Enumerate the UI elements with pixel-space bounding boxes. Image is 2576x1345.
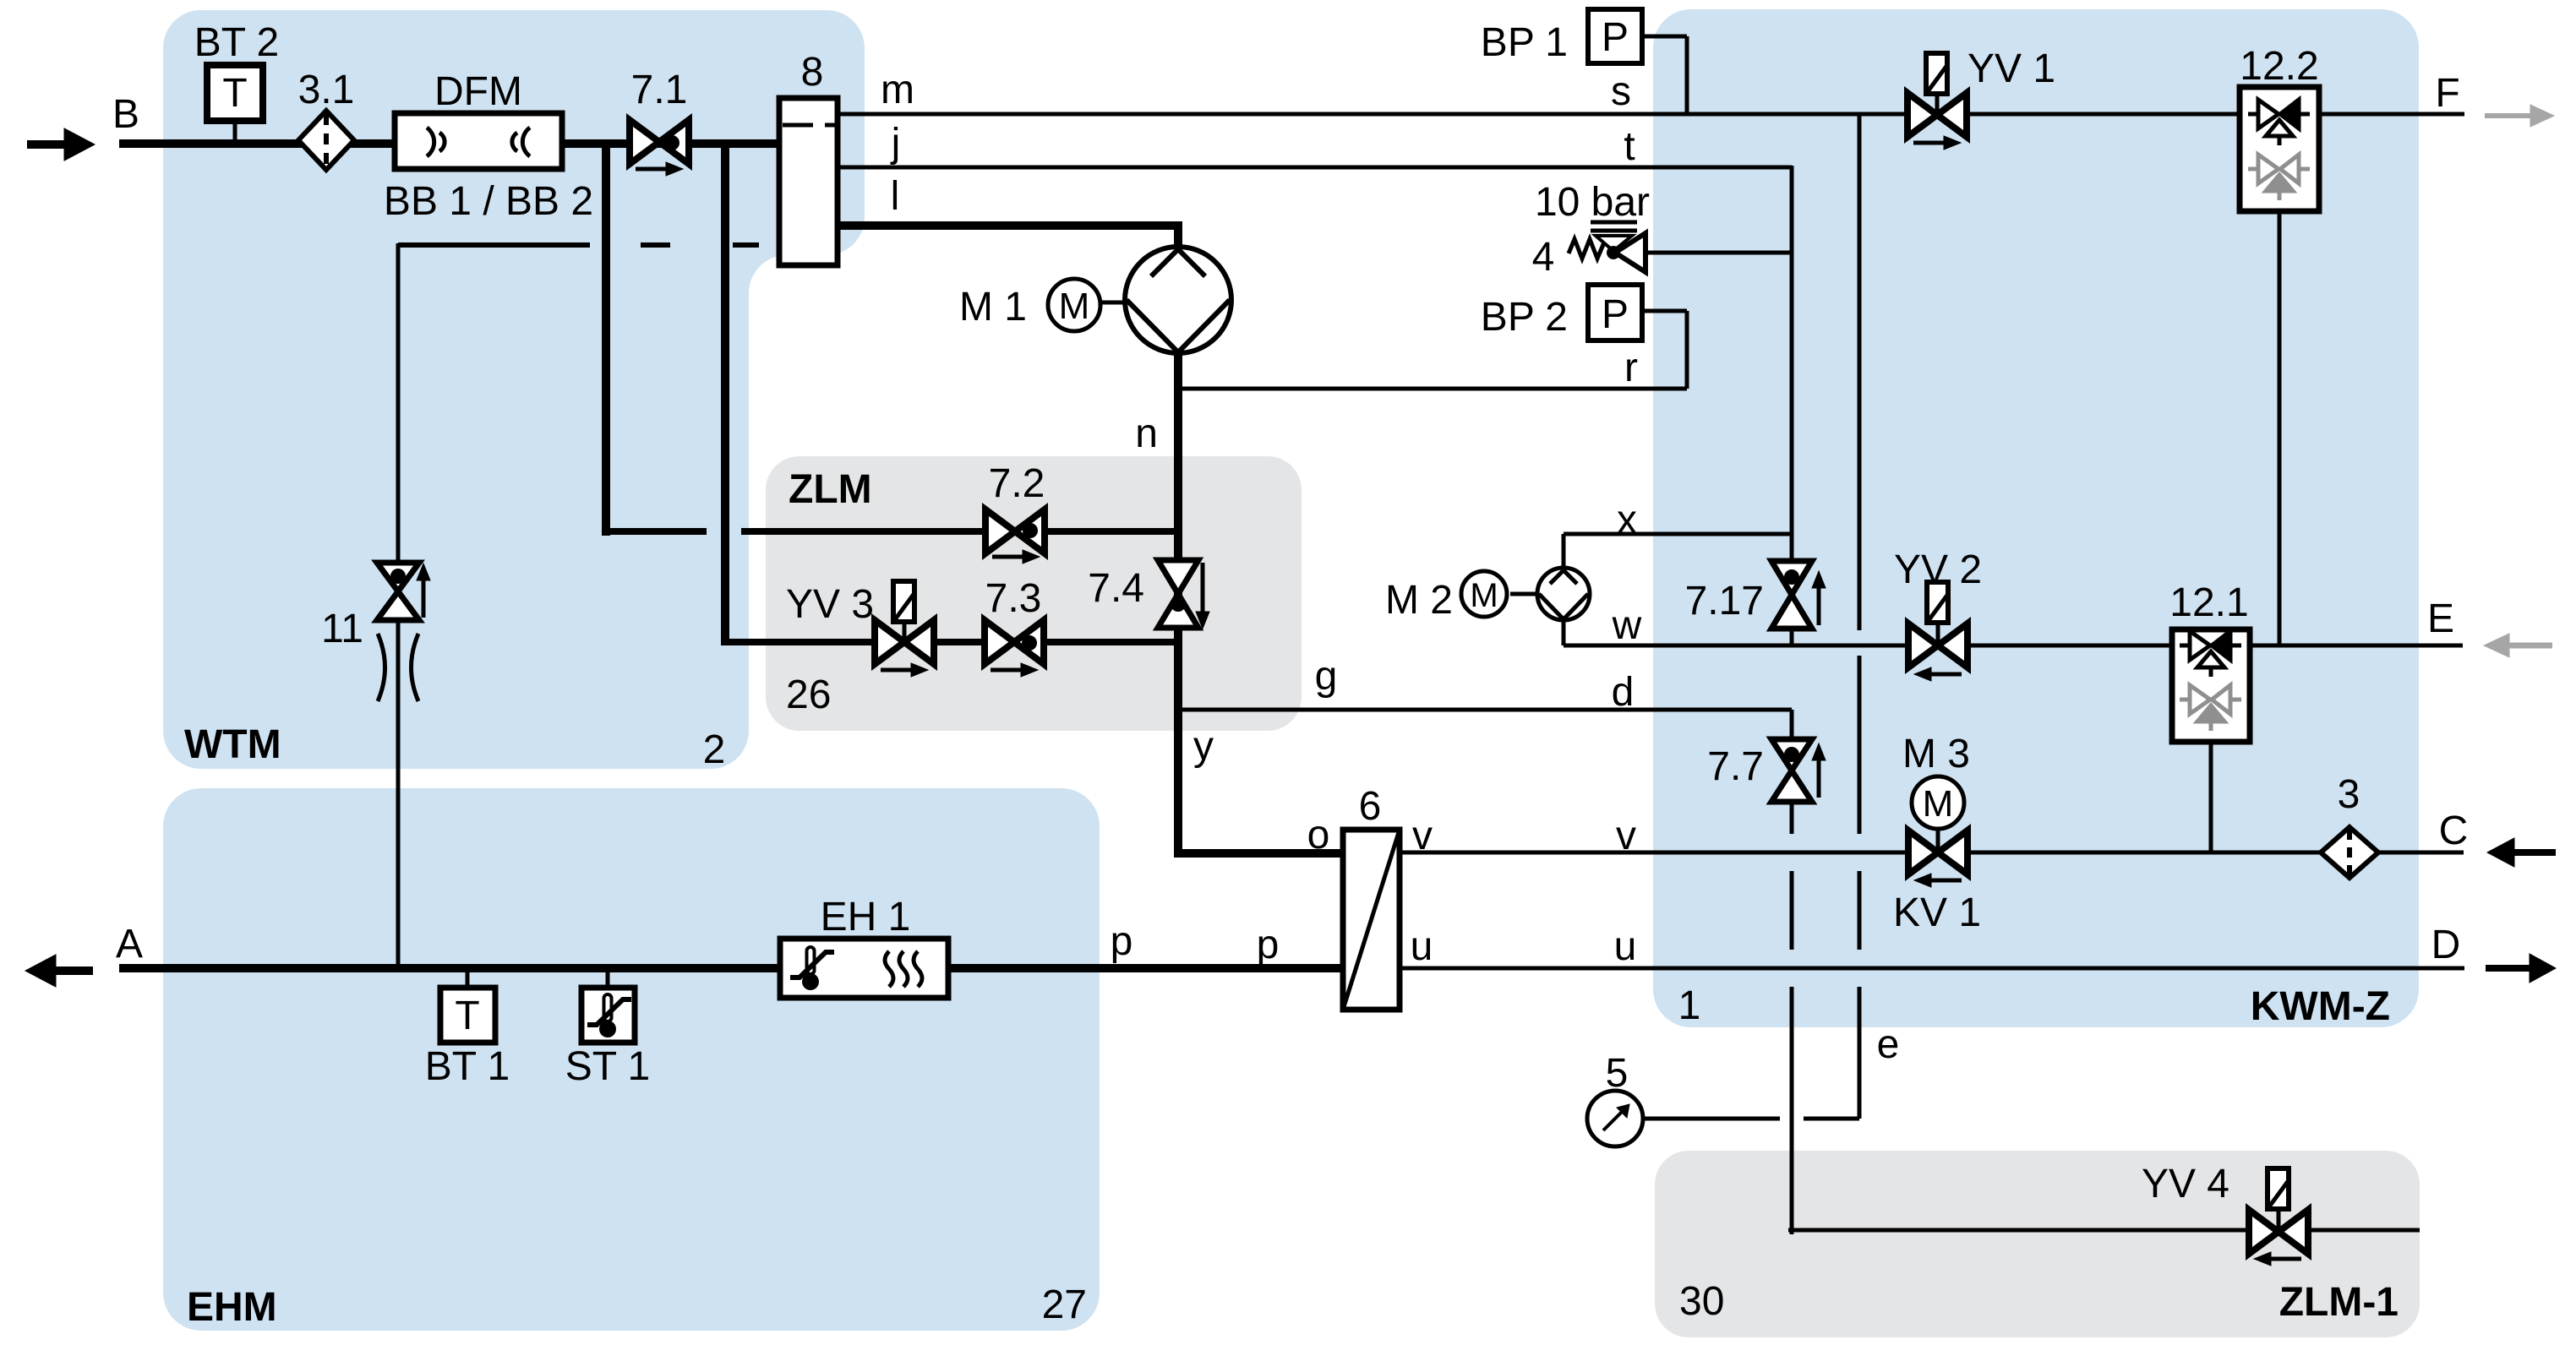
svg-text:11: 11 bbox=[321, 607, 363, 651]
svg-text:r: r bbox=[1624, 346, 1638, 390]
svg-text:BP 2: BP 2 bbox=[1481, 295, 1568, 340]
svg-text:6: 6 bbox=[1359, 784, 1382, 829]
svg-text:T: T bbox=[222, 71, 247, 116]
svg-text:p: p bbox=[1111, 919, 1133, 964]
svg-text:g: g bbox=[1315, 654, 1338, 699]
svg-text:5: 5 bbox=[1606, 1051, 1629, 1096]
svg-text:u: u bbox=[1411, 924, 1433, 969]
svg-text:7.2: 7.2 bbox=[989, 461, 1045, 506]
svg-text:EH 1: EH 1 bbox=[821, 895, 911, 939]
svg-text:4: 4 bbox=[1532, 235, 1555, 280]
svg-text:M: M bbox=[1923, 783, 1954, 825]
svg-text:30: 30 bbox=[1679, 1279, 1724, 1324]
svg-text:8: 8 bbox=[801, 50, 824, 95]
svg-text:3.1: 3.1 bbox=[298, 68, 355, 112]
svg-text:2: 2 bbox=[703, 727, 726, 772]
svg-text:ST 1: ST 1 bbox=[565, 1044, 651, 1089]
svg-text:3: 3 bbox=[2338, 772, 2360, 817]
svg-text:KV 1: KV 1 bbox=[1893, 890, 1981, 935]
svg-text:B: B bbox=[112, 92, 139, 137]
svg-text:7.3: 7.3 bbox=[985, 576, 1042, 621]
svg-text:p: p bbox=[1257, 923, 1280, 967]
svg-text:ZLM: ZLM bbox=[789, 467, 872, 512]
svg-text:BP 1: BP 1 bbox=[1481, 20, 1568, 65]
svg-text:P: P bbox=[1602, 15, 1629, 60]
svg-text:u: u bbox=[1614, 924, 1637, 969]
svg-text:7.1: 7.1 bbox=[631, 68, 688, 112]
svg-text:BT 1: BT 1 bbox=[425, 1044, 510, 1089]
svg-text:v: v bbox=[1412, 814, 1433, 858]
svg-text:e: e bbox=[1877, 1022, 1900, 1067]
svg-text:l: l bbox=[891, 174, 900, 219]
svg-text:BT 2: BT 2 bbox=[194, 20, 280, 65]
svg-text:26: 26 bbox=[786, 672, 831, 717]
svg-text:DFM: DFM bbox=[434, 69, 522, 114]
svg-text:T: T bbox=[455, 994, 479, 1038]
svg-text:x: x bbox=[1617, 498, 1637, 542]
svg-text:WTM: WTM bbox=[184, 722, 281, 767]
svg-text:o: o bbox=[1307, 813, 1330, 858]
svg-text:j: j bbox=[890, 121, 901, 166]
svg-text:M 3: M 3 bbox=[1902, 732, 1970, 776]
svg-text:m: m bbox=[881, 68, 914, 112]
svg-text:P: P bbox=[1602, 292, 1629, 337]
svg-text:F: F bbox=[2435, 71, 2459, 116]
svg-text:M 1: M 1 bbox=[959, 285, 1027, 329]
svg-text:EHM: EHM bbox=[187, 1285, 277, 1330]
svg-text:v: v bbox=[1616, 814, 1636, 858]
svg-text:10 bar: 10 bar bbox=[1535, 180, 1650, 225]
svg-text:27: 27 bbox=[1042, 1282, 1087, 1327]
svg-text:YV 2: YV 2 bbox=[1894, 547, 1982, 592]
svg-text:7.17: 7.17 bbox=[1685, 579, 1764, 623]
svg-text:M: M bbox=[1059, 286, 1090, 327]
svg-text:D: D bbox=[2431, 923, 2461, 967]
svg-text:M: M bbox=[1470, 577, 1498, 614]
svg-text:E: E bbox=[2427, 596, 2454, 641]
svg-text:w: w bbox=[1612, 603, 1642, 648]
svg-text:7.7: 7.7 bbox=[1707, 744, 1764, 789]
svg-text:C: C bbox=[2439, 809, 2469, 853]
svg-text:s: s bbox=[1611, 69, 1631, 114]
svg-text:12.1: 12.1 bbox=[2169, 580, 2248, 625]
svg-text:YV 1: YV 1 bbox=[1967, 46, 2055, 91]
svg-text:n: n bbox=[1135, 411, 1158, 456]
svg-text:y: y bbox=[1193, 724, 1214, 769]
svg-text:YV 3: YV 3 bbox=[786, 582, 874, 627]
svg-text:1: 1 bbox=[1678, 983, 1701, 1028]
svg-text:YV 4: YV 4 bbox=[2142, 1162, 2229, 1206]
svg-text:KWM-Z: KWM-Z bbox=[2251, 984, 2390, 1029]
svg-text:d: d bbox=[1612, 670, 1635, 715]
svg-text:A: A bbox=[116, 922, 143, 967]
svg-text:M 2: M 2 bbox=[1385, 578, 1453, 623]
svg-text:ZLM-1: ZLM-1 bbox=[2279, 1280, 2399, 1325]
svg-text:t: t bbox=[1624, 124, 1635, 169]
svg-text:12.2: 12.2 bbox=[2240, 44, 2318, 89]
svg-text:BB 1 / BB 2: BB 1 / BB 2 bbox=[384, 179, 593, 224]
svg-text:7.4: 7.4 bbox=[1088, 566, 1144, 611]
